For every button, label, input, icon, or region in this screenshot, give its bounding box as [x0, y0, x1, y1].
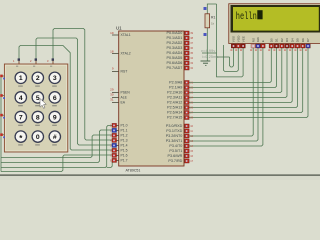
keypad key 1	[15, 72, 26, 87]
svg-text:D2: D2	[280, 38, 284, 42]
svg-text:P2.6/A14: P2.6/A14	[167, 111, 182, 115]
LCD pin 4 RS	[251, 38, 255, 48]
svg-text:P1.0: P1.0	[121, 124, 128, 128]
U1 pin 12 P3.2	[166, 134, 194, 138]
wire R1 bottom down	[206, 28, 208, 61]
svg-text:P2.4/A12: P2.4/A12	[167, 101, 182, 105]
wire U1 P2.5 to LCD D5	[189, 48, 297, 108]
U1 pin 29 PSEN	[110, 87, 130, 94]
U1 pin 23 P2.2	[167, 91, 194, 95]
svg-text:R1: R1	[211, 16, 215, 20]
svg-text:P0.5/AD5: P0.5/AD5	[167, 56, 183, 60]
keypad key 6	[49, 92, 60, 107]
keypad key 2	[32, 72, 43, 87]
U1 pin 19 XTAL1	[110, 31, 131, 37]
svg-text:6: 6	[53, 95, 57, 102]
svg-text:helln: helln	[236, 11, 257, 23]
svg-text:RS: RS	[251, 38, 255, 42]
svg-text:P0.2/AD2: P0.2/AD2	[167, 41, 183, 45]
U1 pin 31 EA	[110, 97, 126, 104]
U1 pin 7 P1.6	[110, 153, 128, 157]
U1 pin 33 P0.6	[167, 61, 194, 65]
svg-text:VDD: VDD	[237, 35, 241, 42]
U1 pin 24 P2.3	[167, 96, 193, 100]
LCD pin 14 D7	[306, 38, 310, 48]
svg-text:P2.2/A10: P2.2/A10	[167, 91, 182, 95]
wire keypad rows shared left-edge vertical	[0, 76, 2, 172]
svg-text:RST: RST	[121, 70, 128, 74]
svg-text:VEE: VEE	[241, 36, 245, 42]
svg-text:P1.1: P1.1	[121, 129, 128, 133]
LCD pin 1 VSS	[231, 36, 235, 48]
wire U1 P2.3 to LCD D3	[189, 48, 287, 98]
wire U1 P3.4 to LCD E	[189, 48, 263, 147]
LCD pin 8 D1	[274, 38, 278, 48]
svg-text:9: 9	[53, 114, 57, 121]
wire U1 P2.1 to LCD D1	[189, 48, 276, 88]
wire keypad col2 to U1 P1.3 (diagonal jog)	[36, 38, 112, 145]
svg-text:P2.7/A15: P2.7/A15	[167, 116, 182, 120]
wire U1 P2.7 to LCD D7	[189, 48, 308, 118]
svg-text:P1.6: P1.6	[121, 154, 128, 158]
wire R1 top to power rail node	[207, 4, 216, 14]
svg-text:i=0.25ma: i=0.25ma	[202, 55, 218, 59]
keypad col pin indicators	[18, 58, 20, 60]
U1 pin 5 P1.4	[110, 143, 128, 147]
svg-text:P3.7/RD: P3.7/RD	[168, 159, 182, 163]
svg-text:P1.2: P1.2	[121, 134, 128, 138]
U1 pin 37 P0.2	[167, 41, 194, 45]
svg-text:VSS: VSS	[232, 36, 236, 42]
U1 pin 30 ALE	[110, 92, 127, 99]
U1 pin 17 P3.7	[168, 159, 193, 163]
svg-text:D5: D5	[296, 38, 300, 42]
svg-text:RW: RW	[256, 37, 260, 42]
U1 pin 18 XTAL2	[110, 50, 131, 56]
wire U1 P2.0 to LCD D0	[189, 48, 271, 83]
svg-text:18: 18	[110, 50, 114, 54]
LCD screen bezel	[231, 5, 320, 33]
svg-text:P1.7: P1.7	[121, 159, 128, 163]
window bottom border line	[0, 174, 320, 176]
svg-text:P0.4/AD4: P0.4/AD4	[167, 51, 183, 55]
svg-text:#: #	[53, 134, 57, 141]
svg-text:P1.3: P1.3	[121, 139, 128, 143]
LCD pin number smudges	[230, 49, 307, 51]
U1 pin 2 P1.1	[110, 128, 128, 132]
svg-text:P0.1/AD1: P0.1/AD1	[167, 36, 183, 40]
R1 top junction marker	[204, 7, 207, 10]
U1 pin 35 P0.4	[167, 51, 194, 55]
svg-text:AT89C51: AT89C51	[126, 169, 141, 173]
U1 pin 28 P2.7	[167, 116, 194, 120]
svg-text:D1: D1	[275, 38, 279, 42]
svg-text:8: 8	[36, 114, 40, 121]
U1 pin 16 P3.6	[168, 154, 194, 158]
svg-text:D0: D0	[270, 38, 274, 42]
keypad keys grid	[15, 72, 60, 145]
svg-text:P3.4/T0: P3.4/T0	[169, 144, 182, 148]
svg-text:P3.3/INT1: P3.3/INT1	[166, 139, 183, 143]
canvas background	[0, 0, 320, 180]
svg-text:XTAL2: XTAL2	[121, 52, 131, 56]
wire keypad row C stub	[1, 114, 4, 116]
svg-text:4: 4	[19, 95, 23, 102]
keypad key 9	[49, 111, 60, 126]
U1 pin 25 P2.4	[167, 101, 194, 105]
svg-text:P2.0/A8: P2.0/A8	[169, 81, 182, 85]
wire node to LCD VDD (middle L)	[223, 45, 238, 71]
U1 pin 38 P0.1	[167, 36, 194, 40]
svg-text:PSEN: PSEN	[121, 91, 131, 95]
U1 pin 36 P0.3	[167, 46, 194, 50]
svg-text:P3.2/INT0: P3.2/INT0	[166, 134, 183, 138]
ground symbol	[201, 61, 211, 65]
keypad body	[4, 64, 67, 152]
LCD pin 3 VEE	[241, 36, 245, 48]
keypad inside top tiny labels	[16, 66, 18, 67]
svg-text:29: 29	[110, 87, 114, 91]
U1 pin 1 P1.0	[110, 123, 128, 127]
wire horizontal link at y57	[217, 56, 230, 58]
svg-text:P1.5: P1.5	[121, 149, 128, 153]
U1 pin 15 P3.5	[169, 149, 193, 153]
svg-text:U1: U1	[116, 26, 122, 31]
svg-text:P0.0/AD0: P0.0/AD0	[167, 31, 183, 35]
U1 pin 6 P1.5	[110, 148, 128, 152]
U1 body	[119, 31, 184, 166]
svg-text:30: 30	[110, 92, 114, 96]
wire keypad col3 to U1 P1.0	[53, 29, 112, 141]
U1 pin 32 P0.7	[167, 66, 194, 70]
svg-text:31: 31	[110, 97, 114, 101]
U1 pin 4 P1.3	[110, 138, 128, 142]
mouse cursor on key 5	[40, 99, 46, 109]
svg-text:P3.0/RXD: P3.0/RXD	[166, 124, 183, 128]
keypad row pin indicators	[0, 75, 3, 78]
svg-text:D7: D7	[306, 38, 310, 42]
svg-text:P1.4: P1.4	[121, 144, 128, 148]
svg-text:D4: D4	[290, 38, 294, 42]
U1 pin 10 P3.0	[166, 124, 194, 128]
LCD pin 5 RW	[256, 37, 260, 48]
keypad key 3	[49, 72, 60, 87]
LCD pin 6 E	[261, 40, 265, 48]
LCD body	[229, 4, 320, 44]
LCD pin 7 D0	[269, 38, 273, 48]
svg-text:P0.7/AD7: P0.7/AD7	[167, 66, 183, 70]
svg-text:19: 19	[110, 31, 114, 35]
svg-text:P3.5/T1: P3.5/T1	[169, 149, 182, 153]
U1 pin 26 P2.5	[167, 106, 194, 110]
wire U1 P3.3 to LCD RW	[189, 48, 258, 142]
svg-text:7: 7	[19, 114, 23, 121]
wire bottom row B to U1 P1.2	[1, 135, 112, 158]
LCD pin 10 D3	[285, 38, 289, 48]
R1 bottom junction marker	[204, 33, 207, 36]
bottom strip below border	[0, 176, 320, 180]
wire keypad row B stub	[1, 95, 4, 97]
svg-text:1k: 1k	[211, 22, 215, 26]
keypad row pin blue marks	[3, 78, 5, 80]
keypad key 0	[32, 131, 43, 146]
LCD pin 11 D4	[290, 38, 294, 48]
U1 pin 8 P1.7	[110, 158, 128, 162]
LCD pin 2 VDD	[236, 35, 240, 48]
U1 pin 9 RST	[112, 66, 127, 73]
svg-text:D6: D6	[301, 38, 305, 42]
keypad key 5	[32, 92, 43, 107]
wire U1 P2.6 to LCD D6	[189, 48, 302, 113]
keypad col pin stubs	[18, 59, 20, 65]
wire bottom row C to U1 P1.1	[1, 130, 112, 163]
svg-text:P3.1/TXD: P3.1/TXD	[166, 129, 182, 133]
U1 pin 34 P0.5	[167, 56, 194, 60]
wire U1 P3.2 to LCD RS	[189, 48, 253, 137]
svg-text:P2.3/A11: P2.3/A11	[167, 96, 182, 100]
keypad key *	[15, 131, 26, 146]
svg-text:0: 0	[36, 134, 40, 141]
wire bottom row D to U1 P1.7	[1, 125, 112, 167]
keypad key 7	[15, 111, 26, 126]
wire U1 P2.2 to LCD D2	[189, 48, 281, 93]
svg-text:3: 3	[53, 75, 57, 82]
svg-text:E: E	[261, 40, 265, 42]
U1 pin 21 P2.0	[169, 81, 193, 85]
resistor R1 body	[205, 14, 210, 28]
keypad key 4	[15, 92, 26, 107]
U1 pin 3 P1.2	[110, 133, 128, 137]
svg-text:P3.6/WR: P3.6/WR	[168, 154, 183, 158]
wire U1 P2.4 to LCD D4	[189, 48, 292, 103]
LCD screen	[233, 7, 319, 31]
LCD cursor block	[257, 10, 262, 19]
wire bottom row A to U1 P1.6	[1, 155, 112, 172]
U1 pin 22 P2.1	[169, 86, 193, 90]
wire horizontal at y53	[202, 52, 217, 54]
U1 pin 27 P2.6	[167, 111, 194, 115]
wire keypad col1 to U1 P1.5	[19, 46, 112, 151]
U1 pin 11 P3.1	[166, 129, 193, 133]
svg-text:1: 1	[19, 75, 23, 82]
U1 pin 39 P0.0	[167, 31, 194, 35]
svg-text:D3: D3	[285, 38, 289, 42]
svg-text:P0.6/AD6: P0.6/AD6	[167, 61, 183, 65]
LCD pin 13 D6	[301, 38, 305, 48]
svg-text:v=4.99v: v=4.99v	[201, 49, 215, 53]
wire keypad row A stub	[1, 75, 4, 77]
svg-text:5: 5	[36, 95, 40, 102]
LCD pin 12 D5	[295, 38, 299, 48]
svg-text:XTAL1: XTAL1	[121, 33, 131, 37]
svg-text:ALE: ALE	[121, 96, 128, 100]
svg-text:P2.5/A13: P2.5/A13	[167, 106, 182, 110]
svg-text:P0.3/AD3: P0.3/AD3	[167, 46, 183, 50]
U1 pin 13 P3.3	[166, 139, 194, 143]
svg-text:P2.1/A9: P2.1/A9	[169, 86, 182, 90]
LCD pin 9 D2	[280, 38, 284, 48]
U1 pin 14 P3.4	[169, 144, 193, 148]
wire node to LCD VSS (inner L)	[230, 48, 234, 68]
svg-text:2: 2	[36, 75, 40, 82]
svg-text:EA: EA	[121, 101, 126, 105]
wire keypad row D stub	[1, 134, 4, 136]
keypad key 8	[32, 111, 43, 126]
wire node to LCD VEE (outer L)	[217, 4, 244, 77]
keypad key #	[49, 131, 60, 146]
